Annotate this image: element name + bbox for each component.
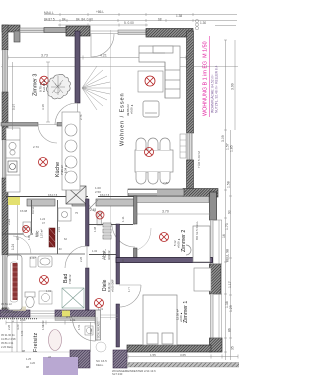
window top (Zimmer 3)	[20, 28, 44, 33]
svg-text:5 m²: 5 m²	[173, 240, 177, 246]
label Freisitz	[33, 332, 39, 352]
lamp symbol Zimmer 1	[159, 309, 168, 318]
svg-text:+0.00 ▲: +0.00 ▲	[179, 312, 183, 322]
left bottom text rows	[1, 324, 36, 369]
svg-text:1.58: 1.58	[227, 181, 231, 188]
label Wohnen / Essen	[120, 92, 134, 146]
svg-text:2.48: 2.48	[90, 208, 96, 212]
door arc WC	[13, 236, 31, 254]
INTERIOR WALL Bad / Diele (vertical purple)	[86, 199, 90, 246]
svg-text:4.21: 4.21	[100, 54, 107, 58]
bottom dimension lines right	[128, 355, 238, 359]
FREISITZ table oval	[49, 330, 62, 351]
window left Bad	[2, 255, 8, 308]
label WC	[35, 229, 44, 238]
wall Essen-Zimmer2	[128, 189, 184, 196]
svg-text:1.85: 1.85	[230, 145, 234, 152]
WALL Abst top	[89, 224, 133, 226]
lamp symbol dining	[145, 148, 154, 157]
window Zimmer 1	[210, 294, 214, 338]
svg-text:1.93: 1.93	[41, 320, 45, 326]
svg-text:12.36 m²: 12.36 m²	[176, 309, 180, 320]
svg-text:Wohnen / Essen: Wohnen / Essen	[120, 92, 126, 146]
wall corner top-left hatched	[2, 25, 20, 32]
svg-text:1.57 m²: 1.57 m²	[40, 229, 44, 238]
door arc Zimmer 2 (into Diele)	[112, 224, 135, 247]
svg-text:35: 35	[231, 346, 235, 350]
svg-text:9.75 m²: 9.75 m²	[39, 82, 43, 92]
toilet Bad	[25, 292, 35, 308]
svg-text:41 86.2 4 98: 41 86.2 4 98	[1, 337, 16, 341]
svg-text:7.98 m²: 7.98 m²	[68, 274, 72, 284]
svg-text:2.40: 2.40	[20, 318, 26, 322]
svg-text:SCHL.ANLAGE: SCHL.ANLAGE	[98, 321, 101, 338]
top dimension texts	[44, 10, 206, 25]
label Zimmer 2	[173, 230, 187, 252]
window left Küche	[2, 140, 8, 178]
yellow marker	[62, 311, 70, 317]
top dimension lines	[44, 13, 237, 27]
window sill ticks right wall B	[210, 220, 222, 338]
label Bad	[63, 274, 72, 284]
DIVIDER WALL Zimmer2 / Zimmer1 (purple)	[116, 258, 213, 263]
duct boxes left wall	[9, 131, 16, 156]
svg-text:+0.00 ▲: +0.00 ▲	[177, 238, 181, 248]
terrace door opening	[90, 31, 118, 34]
svg-text:1.93: 1.93	[89, 328, 93, 334]
wall bottom with yellow mark	[55, 310, 95, 317]
svg-text:1.17: 1.17	[228, 281, 232, 288]
door arc Zimmer 3	[55, 103, 78, 125]
svg-text:MAU.L: MAU.L	[44, 11, 54, 15]
svg-text:2.01: 2.01	[57, 226, 61, 232]
lamp symbol Bad	[40, 276, 49, 285]
wall pier below corner	[14, 31, 20, 42]
dim line Zimmer 2 (3.70)	[137, 212, 210, 216]
label Abst	[102, 249, 112, 260]
svg-text:05 84.4 31: 05 84.4 31	[1, 341, 14, 345]
pipe circles top right	[195, 19, 198, 29]
wall corner bottom right hatched	[210, 338, 223, 352]
svg-text:Wc: Wc	[35, 230, 40, 237]
svg-text:1.38: 1.38	[176, 14, 182, 18]
svg-text:16: 16	[222, 234, 226, 238]
inner dim line top (3.73 / 4.21)	[8, 56, 186, 60]
lamp symbol Küche	[39, 158, 48, 167]
BOTTOM WALL (Bad)	[0, 310, 30, 317]
svg-text:3.65: 3.65	[180, 353, 186, 357]
svg-text:2.26: 2.26	[79, 256, 83, 262]
section line horizontal	[1, 65, 238, 68]
svg-text:+0.00 ▲: +0.00 ▲	[130, 104, 134, 114]
toilet WC	[23, 222, 31, 237]
wall pier hatched between windows	[210, 264, 222, 294]
pink title text	[203, 36, 219, 117]
lamp symbol Diele top	[96, 211, 104, 219]
svg-text:1.01: 1.01	[70, 318, 76, 322]
neighbour wall fill lavender	[43, 357, 78, 375]
door arc Bad	[65, 246, 87, 268]
dim line 3.18 vertical Zimmer3	[46, 62, 50, 122]
ZIMMER 1 closet	[194, 268, 211, 291]
svg-text:2.24: 2.24	[7, 219, 11, 225]
ZIMMER 2 bed	[186, 226, 210, 262]
svg-text:47: 47	[48, 355, 52, 359]
LIVING ROOM sofa L	[139, 46, 180, 98]
freisitz dim line	[6, 321, 95, 353]
property hatch strip bottom	[127, 363, 239, 368]
clutter texts middle band	[20, 193, 131, 319]
svg-text:90: 90	[228, 210, 232, 214]
svg-text:TÜR 5 ZR M: TÜR 5 ZR M	[197, 151, 201, 168]
svg-text:2.26: 2.26	[7, 324, 11, 330]
right dimension column	[224, 40, 235, 360]
porch wall left (purple hatch)	[70, 350, 90, 368]
WC walls	[31, 200, 33, 233]
lamp symbol Zimmer 3	[40, 76, 49, 85]
svg-text:1.25: 1.25	[11, 316, 15, 322]
svg-text:84 87 5: 84 87 5	[44, 18, 55, 22]
svg-text:KS 17.5: KS 17.5	[100, 193, 110, 197]
electrical panel boxes Diele	[103, 223, 111, 239]
svg-text:6 +0.38 ▲: 6 +0.38 ▲	[42, 80, 46, 92]
svg-text:1.11: 1.11	[121, 216, 125, 222]
svg-text:1.67: 1.67	[30, 256, 36, 260]
svg-text:1.73: 1.73	[225, 223, 229, 230]
wall right lower segment	[187, 160, 194, 190]
ENTRANCE door	[73, 317, 96, 341]
left bottom dimension block (Freisitz)	[1, 302, 45, 336]
svg-text:84. 84. 0.00: 84. 84. 0.00	[76, 18, 93, 22]
svg-text:1.24: 1.24	[11, 244, 15, 250]
wall right upper	[187, 31, 194, 133]
svg-text:1.77: 1.77	[127, 286, 131, 292]
svg-text:3.09: 3.09	[221, 135, 225, 142]
window Zimmer 2	[210, 220, 214, 264]
threshold lines entrance	[95, 315, 118, 318]
wall corner step (Essen / Zimmer 2) hatched	[183, 189, 218, 198]
letterbox icon	[85, 326, 93, 335]
svg-text:2.26 KELL: 2.26 KELL	[1, 345, 14, 349]
svg-text:1.32: 1.32	[92, 249, 98, 253]
lamp symbol Zimmer 2	[160, 233, 169, 242]
svg-text:1.38: 1.38	[93, 226, 97, 232]
left dimension column	[7, 104, 20, 250]
duct dark red	[49, 228, 55, 248]
svg-text:BR 62.5 KELL: BR 62.5 KELL	[195, 221, 199, 240]
lintel beams gray	[27, 199, 55, 206]
svg-text:4.03 m²: 4.03 m²	[107, 250, 111, 260]
bottom wall Zimmer 1 hatched	[127, 345, 211, 352]
svg-text:+0.00 OKF: +0.00 OKF	[111, 279, 115, 292]
INTERIOR WALL Diele / Zimmer 2 (vertical)	[134, 196, 138, 224]
svg-text:87: 87	[16, 236, 20, 240]
LEFT WALL	[2, 25, 8, 50]
svg-text:KELL: KELL	[96, 363, 104, 367]
wall right of Zimmer2 top	[210, 192, 217, 220]
svg-text:3.99: 3.99	[231, 83, 235, 90]
svg-text:4.20: 4.20	[30, 361, 36, 365]
svg-text:.63: .63	[58, 247, 62, 251]
washbasin Bad	[38, 256, 52, 267]
svg-text:NUTZFL. 92.48 m² KELLER 8.4: NUTZFL. 92.48 m² KELLER 8.4	[215, 65, 219, 113]
svg-text:+86.L: +86.L	[96, 10, 104, 14]
svg-text:05 31.90 41: 05 31.90 41	[1, 333, 15, 337]
INTERIOR WALL Zimmer3 / Wohnen	[75, 31, 80, 103]
svg-text:7.96 m²: 7.96 m²	[60, 165, 64, 175]
wall segment top	[44, 28, 67, 33]
label box entrance	[96, 310, 101, 340]
label Zimmer 3	[33, 74, 47, 96]
fan rays symbol	[82, 66, 111, 110]
shower	[58, 208, 71, 221]
svg-text:2.87: 2.87	[163, 181, 169, 185]
shaft box with X (chimney)	[66, 186, 86, 204]
bathtub	[7, 255, 22, 310]
svg-text:1.55: 1.55	[150, 353, 156, 357]
svg-text:5. 0.00: 5. 0.00	[124, 21, 134, 25]
svg-text:Freisitz: Freisitz	[33, 332, 39, 352]
svg-text:1.24: 1.24	[40, 217, 46, 221]
svg-text:3.18: 3.18	[41, 104, 45, 110]
KITCHEN island	[62, 112, 80, 190]
INTERIOR WALL Küche / WC (horizontal)	[6, 197, 136, 207]
label Küche	[55, 162, 68, 177]
svg-text:DU 90: DU 90	[31, 206, 35, 214]
svg-text:KS 17.5: KS 17.5	[48, 193, 58, 197]
dining chairs top	[136, 138, 170, 184]
window bottom Bad	[30, 311, 55, 316]
svg-text:KS 98: KS 98	[20, 209, 28, 213]
bottom tiny text	[112, 369, 156, 375]
svg-text:WOHNUNG B 1 im EG M 1/50: WOHNUNG B 1 im EG M 1/50	[203, 41, 209, 116]
door arc Zimmer 2 inner	[137, 228, 151, 250]
svg-text:6.34 ▲: 6.34 ▲	[64, 164, 68, 173]
door arc Küche	[38, 124, 57, 143]
top small line right	[215, 25, 236, 27]
entrance step strip	[55, 317, 95, 321]
washing machine box with X	[62, 288, 84, 308]
dryer box Bad	[39, 291, 52, 304]
svg-text:39.86 m²: 39.86 m²	[126, 104, 130, 116]
svg-text:1.51: 1.51	[77, 324, 81, 330]
porch wall right (purple hatch)	[113, 350, 127, 368]
lamp symbol living	[145, 76, 155, 86]
svg-text:3.73: 3.73	[41, 54, 48, 58]
door arc Zimmer 1	[119, 285, 141, 307]
section line vertical	[110, 30, 112, 320]
WALL Abst bottom	[89, 254, 116, 256]
svg-text:1.25: 1.25	[26, 357, 32, 361]
radiator red in bath area	[13, 263, 18, 300]
plant Zimmer 3	[46, 74, 70, 99]
armchair	[143, 101, 159, 117]
svg-text:1.87: 1.87	[27, 234, 31, 240]
lamp symbol Diele bottom	[95, 299, 104, 308]
radiator right wall	[180, 134, 186, 158]
lamp symbol WC	[23, 226, 30, 233]
DINING table	[135, 150, 173, 172]
wall top right hatched	[146, 29, 193, 38]
svg-text:Zimmer 1: Zimmer 1	[183, 301, 189, 323]
KITCHEN counter left	[6, 128, 20, 192]
svg-text:1.01: 1.01	[98, 307, 104, 311]
label Diele	[102, 279, 115, 292]
svg-text:1.30: 1.30	[200, 21, 206, 25]
svg-text:8.16 m²: 8.16 m²	[107, 282, 111, 292]
svg-text:2.76: 2.76	[79, 114, 83, 120]
svg-text:86: 86	[228, 328, 232, 332]
label box Diele door	[97, 212, 102, 225]
mirror WC	[30, 257, 36, 267]
entrance step lines	[96, 317, 106, 352]
svg-text:Zimmer 2: Zimmer 2	[181, 230, 187, 252]
yellow marker left	[8, 197, 20, 205]
svg-text:84.: 84.	[62, 18, 67, 22]
label Zimmer 1	[176, 301, 190, 323]
svg-text:KELL 98: KELL 98	[226, 249, 230, 262]
svg-text:2.73: 2.73	[33, 145, 39, 149]
svg-text:4.20: 4.20	[16, 324, 20, 330]
svg-text:3.70: 3.70	[162, 210, 169, 214]
svg-text:68: 68	[158, 18, 162, 22]
freisitz small dims	[41, 320, 81, 359]
coffee table square	[138, 71, 163, 92]
window left Zimmer 3	[2, 50, 8, 92]
wall pier hatched top middle	[66, 26, 90, 36]
window top (Wohnen)	[118, 30, 146, 35]
ZIMMER 1 bed	[143, 295, 177, 345]
door leaf Wohnen-Diele (diagonal)	[86, 200, 98, 213]
svg-text:1.01: 1.01	[46, 289, 52, 293]
svg-text:LAGER/KELL: LAGER/KELL	[1, 310, 19, 314]
window right (Essen)	[187, 133, 193, 160]
svg-text:1.29: 1.29	[229, 305, 233, 312]
Zimmer 2 top wall inner face	[137, 197, 209, 203]
terrace door leaf and arc	[91, 34, 114, 57]
INTERIOR WALL Diele / Zimmer1 (vertical purple)	[116, 224, 120, 284]
INTERIOR WALL Zimmer3 / Küche	[1, 123, 38, 127]
